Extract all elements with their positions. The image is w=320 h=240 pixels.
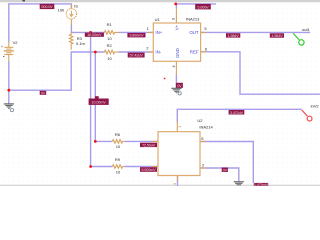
battery V2 leads	[8, 42, 10, 62]
current source IS leads	[70, 4, 72, 25]
meter box 72.59uV U2 in1	[140, 143, 157, 148]
svg-text:IS: IS	[74, 4, 78, 9]
meter box 1.984V out1	[270, 33, 284, 38]
meter box 1.984V OUT	[226, 33, 240, 38]
meter box 500.0V	[40, 4, 55, 9]
svg-text:100: 100	[58, 8, 65, 13]
svg-text:1.984V: 1.984V	[228, 34, 240, 38]
junction node dot R9 row	[89, 165, 92, 168]
wire U2 OUT down to meter	[200, 142, 253, 184]
wire R6 to U2	[124, 140, 158, 142]
meter box 9.900mV IN+	[127, 33, 145, 38]
svg-text:10: 10	[116, 169, 121, 174]
svg-text:V+: V+	[174, 24, 179, 30]
resistor R9	[112, 165, 124, 169]
ground under U1	[171, 88, 181, 92]
junction node dot IN- row	[94, 51, 97, 54]
battery V2 plates	[4, 47, 14, 54]
junction node dot R6 row	[94, 140, 97, 143]
svg-text:out1: out1	[302, 27, 311, 32]
voltage pin flag out1 (green)	[293, 33, 304, 45]
wire R2 to U1 IN-	[119, 51, 154, 53]
wire U1 REF routing	[201, 52, 320, 94]
wire top rail V2 to IS	[9, 4, 72, 42]
svg-text:0.1m: 0.1m	[76, 41, 86, 46]
meter box 10.00mV with tab	[89, 96, 109, 105]
ground left	[4, 104, 14, 108]
svg-text:IN+: IN+	[155, 30, 162, 35]
svg-text:57.42uV: 57.42uV	[130, 54, 144, 58]
svg-text:IN-: IN-	[155, 50, 161, 55]
voltage pin flag in2 (red)	[302, 110, 312, 121]
meter box 10.00mV node A	[85, 33, 104, 38]
svg-text:9.900mV: 9.900mV	[129, 34, 144, 38]
meter box U2 out bottom	[254, 183, 269, 187]
wire U2 GND pin	[177, 176, 179, 187]
U2 pin stubs	[152, 122, 206, 182]
wire V2 bottom to ground	[8, 61, 10, 103]
junction node dot ground rail	[7, 89, 10, 92]
resistor R2	[104, 50, 118, 54]
svg-text:R6: R6	[115, 132, 121, 137]
meter box 57.42uV IN-	[128, 53, 145, 58]
wire U1 OUT to out1	[201, 31, 310, 33]
svg-text:10: 10	[107, 56, 112, 61]
svg-text:4: 4	[173, 183, 177, 185]
svg-text:3: 3	[178, 126, 182, 128]
svg-text:R9: R9	[115, 157, 121, 162]
window top bar	[0, 0, 320, 2]
svg-text:U2: U2	[197, 118, 203, 123]
svg-text:10.00mV: 10.00mV	[92, 100, 107, 104]
op-amp U1 INA213 body	[153, 23, 200, 61]
meter box 0V U2 ref	[222, 168, 228, 173]
svg-text:500.0V: 500.0V	[41, 5, 53, 9]
svg-text:+: +	[1, 44, 4, 49]
meter box 9.900mV U2 in2	[140, 167, 157, 172]
svg-text:3.470uV: 3.470uV	[230, 111, 244, 115]
svg-text:0V: 0V	[177, 84, 182, 88]
svg-text:0V: 0V	[223, 168, 228, 172]
wire vertical dropper IN- node to R6 row	[95, 52, 112, 141]
meter box 3.470uV REF net	[229, 110, 245, 115]
junction node dot top rail	[174, 3, 177, 6]
svg-text:10: 10	[107, 36, 112, 41]
voltmeter plus marker	[164, 78, 166, 79]
svg-text:R3: R3	[77, 36, 83, 41]
U1 pin stubs	[148, 8, 207, 75]
wire V+ rail of U1	[176, 4, 216, 8]
svg-text:REF: REF	[190, 50, 199, 55]
ground under U2 REF	[234, 182, 244, 185]
meter box 0V U1 gnd	[176, 83, 183, 88]
wire ground rail to R3 node	[9, 52, 105, 90]
svg-text:1.470mV: 1.470mV	[254, 183, 269, 186]
wire U1 GND pin to ground	[175, 74, 177, 88]
svg-text:OUT: OUT	[189, 30, 199, 35]
svg-text:0V: 0V	[41, 91, 46, 95]
wire R9 to U2	[124, 166, 158, 168]
junction node dot IN+ row	[89, 31, 92, 34]
svg-text:9.900mV: 9.900mV	[141, 168, 156, 172]
svg-text:inV2: inV2	[311, 104, 320, 109]
wire U2 REF to ground	[200, 168, 239, 182]
svg-text:R1: R1	[107, 22, 113, 27]
macro U2 INA214 body	[158, 132, 200, 176]
wire R1 to U1 IN+	[119, 31, 154, 33]
window bottom bar	[0, 185, 320, 186]
resistor R6	[112, 140, 124, 144]
resistor R3	[69, 32, 73, 49]
svg-text:GND: GND	[175, 48, 180, 58]
meter box 0V ground rail	[40, 91, 47, 96]
wire vertical dropper IN+ node to R9 row	[91, 32, 113, 166]
wire IS bottom to node A	[71, 25, 104, 33]
svg-text:1.984V: 1.984V	[271, 34, 283, 38]
resistor R1	[104, 31, 118, 35]
svg-text:10.00mV: 10.00mV	[87, 33, 102, 37]
svg-text:INA213: INA213	[186, 17, 200, 22]
svg-text:72.59uV: 72.59uV	[142, 143, 156, 147]
svg-text:R2: R2	[107, 43, 113, 48]
svg-text:INA214: INA214	[199, 124, 213, 129]
meter box 5.000V	[195, 4, 211, 9]
current source IS circle	[66, 9, 76, 19]
svg-text:V2: V2	[13, 40, 19, 45]
svg-text:U1: U1	[155, 17, 161, 22]
battery minus dot	[3, 56, 4, 57]
wire in2 long wire to U2 top pin	[177, 109, 301, 122]
svg-text:5.000V: 5.000V	[197, 5, 209, 9]
svg-text:10: 10	[116, 144, 121, 149]
